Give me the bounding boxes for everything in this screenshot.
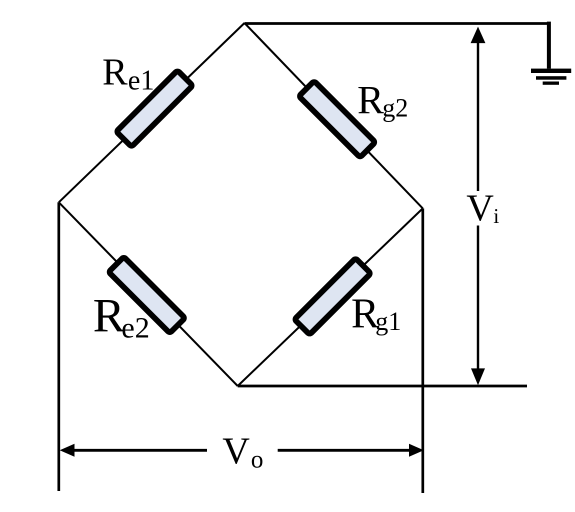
wire: left output lead (L down)	[57, 202, 60, 491]
svg-text:i: i	[493, 204, 499, 228]
ground	[531, 69, 571, 85]
svg-text:R: R	[357, 78, 384, 123]
wire: bridge arm top-right (T to R)	[245, 23, 423, 208]
svg-text:R: R	[93, 290, 125, 343]
svg-text:e1: e1	[128, 65, 154, 96]
wire: bridge arm bottom-left (L to B)	[59, 202, 238, 386]
svg-text:V: V	[222, 431, 250, 473]
label Re2	[93, 290, 150, 345]
label Rg2	[357, 78, 408, 123]
wire: bottom rail (B to right)	[238, 385, 527, 388]
label Re1	[102, 52, 154, 97]
resistor Re2	[109, 257, 185, 333]
svg-text:g2: g2	[382, 94, 408, 123]
wire: ground stub	[547, 22, 551, 69]
svg-text:o: o	[251, 446, 264, 473]
svg-text:R: R	[102, 52, 128, 94]
svg-text:g1: g1	[375, 307, 401, 336]
resistor Re1	[116, 70, 192, 146]
wire: right output lead (R down)	[421, 208, 424, 493]
wire: bridge arm bottom-right (B to R)	[238, 208, 423, 386]
svg-text:e2: e2	[121, 311, 149, 344]
wire: bridge arm top-left (T to L)	[59, 23, 245, 202]
arrow Vi	[471, 27, 486, 386]
resistor Rg1	[294, 258, 370, 334]
label Vi	[466, 188, 499, 230]
svg-text:V: V	[466, 188, 494, 230]
label Vo	[222, 431, 263, 474]
label Rg1	[351, 292, 401, 338]
resistor Rg2	[299, 81, 375, 157]
arrow Vo	[60, 444, 424, 457]
wire: top rail (top node to ground corner)	[245, 22, 550, 25]
